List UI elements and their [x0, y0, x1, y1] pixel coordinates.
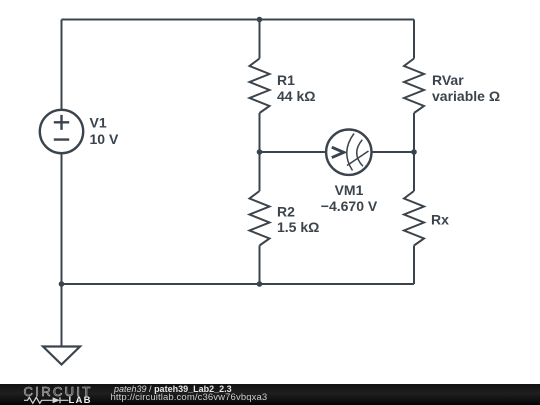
node junction bottom middle: [257, 281, 263, 287]
wire ground stem: [61, 284, 63, 347]
svg-text:10 V: 10 V: [90, 131, 119, 147]
wire right top lead: [413, 20, 415, 59]
wire middle top lead: [259, 20, 261, 59]
svg-text:−4.670 V: −4.670 V: [321, 198, 378, 214]
svg-text:LAB: LAB: [69, 395, 92, 405]
node junction top middle: [257, 17, 263, 23]
svg-text:RVar: RVar: [432, 72, 464, 88]
ground: [43, 347, 80, 365]
footer title text: [114, 385, 232, 394]
wire right node to Rx: [413, 152, 415, 191]
wire middle between R1 and node: [259, 113, 261, 152]
wire voltmeter to mid-right: [372, 151, 415, 153]
resistor R1: [250, 59, 270, 114]
wire mid-left to voltmeter: [260, 151, 327, 153]
voltage source V1: [40, 110, 83, 153]
wire top-left horizontal: [62, 19, 260, 21]
CircuitLab logo circuit squiggle: [24, 397, 69, 403]
svg-text:Rx: Rx: [431, 212, 449, 228]
svg-text:R1: R1: [277, 72, 295, 88]
voltmeter VM1: [326, 130, 371, 175]
resistor RVar: [404, 59, 424, 114]
wire left vertical lower: [61, 153, 63, 284]
resistor R2: [250, 191, 270, 246]
svg-text:V1: V1: [90, 115, 107, 131]
svg-text:1.5 kΩ: 1.5 kΩ: [277, 219, 319, 235]
node junction mid right: [411, 149, 417, 155]
wire bottom horizontal: [62, 283, 415, 285]
wire left vertical upper: [61, 20, 63, 110]
svg-text:variable Ω: variable Ω: [432, 88, 500, 104]
svg-text:VM1: VM1: [335, 182, 364, 198]
wire top-right horizontal: [260, 19, 415, 21]
node junction bottom left: [59, 281, 65, 287]
svg-text:44 kΩ: 44 kΩ: [277, 88, 315, 104]
svg-text:R2: R2: [277, 203, 295, 219]
resistor Rx: [404, 191, 424, 246]
wire right bottom lead: [413, 246, 415, 285]
wire middle node to R2: [259, 152, 261, 191]
node junction mid left: [257, 149, 263, 155]
footer bar: [0, 384, 540, 405]
wire middle bottom lead: [259, 246, 261, 285]
wire right between RVar and node: [413, 113, 415, 152]
footer url text: [111, 393, 268, 402]
